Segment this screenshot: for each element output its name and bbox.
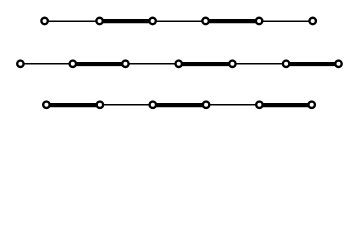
node b6 bbox=[283, 61, 289, 67]
wire P1 edge a3-a4 (thin) bbox=[153, 20, 206, 22]
wire P1 edge a1-a2 (thin) bbox=[45, 20, 100, 22]
wire P3 edge c2-c3 (thin) bbox=[100, 104, 153, 106]
wire P3 edge c1-c2 (thick matched) bbox=[46, 103, 100, 107]
wire P1 edge a5-a6 (thin) bbox=[259, 20, 313, 22]
node c3 bbox=[150, 102, 156, 108]
node b1 bbox=[17, 61, 23, 67]
wire P2 edge b4-b5 (thick matched) bbox=[179, 62, 233, 66]
node a4 bbox=[202, 18, 208, 24]
node c4 bbox=[203, 102, 209, 108]
wire P1 edge a4-a5 (thick matched) bbox=[206, 19, 260, 23]
wire P2 edge b5-b6 (thin) bbox=[232, 63, 286, 65]
path P1 (top alternating path) bbox=[45, 20, 313, 22]
wire P2 edge b6-b7 (thick matched) bbox=[286, 62, 338, 66]
node c5 bbox=[256, 102, 262, 108]
node a2 bbox=[96, 18, 102, 24]
wire P3 edge c3-c4 (thick matched) bbox=[153, 103, 206, 107]
node a1 bbox=[41, 18, 47, 24]
path P2 (middle alternating path) bbox=[20, 63, 338, 65]
wire P2 edge b3-b4 (thin) bbox=[125, 63, 178, 65]
node c2 bbox=[97, 102, 103, 108]
node a3 bbox=[149, 18, 155, 24]
node b4 bbox=[176, 61, 182, 67]
node c6 bbox=[309, 102, 315, 108]
wire P2 edge b2-b3 (thick matched) bbox=[73, 62, 126, 66]
node b7 bbox=[335, 61, 341, 67]
wire P1 edge a2-a3 (thick matched) bbox=[100, 19, 153, 23]
node a5 bbox=[256, 18, 262, 24]
wire P3 edge c4-c5 (thin) bbox=[206, 104, 259, 106]
node b5 bbox=[229, 61, 235, 67]
path P3 (bottom alternating path) bbox=[46, 103, 311, 108]
node a6 bbox=[310, 18, 316, 24]
node c1 bbox=[43, 102, 49, 108]
wire P2 edge b1-b2 (thin) bbox=[20, 63, 72, 65]
node b2 bbox=[70, 61, 76, 67]
wire P3 edge c5-c6 (thick matched) bbox=[259, 103, 311, 107]
node b3 bbox=[122, 61, 128, 67]
